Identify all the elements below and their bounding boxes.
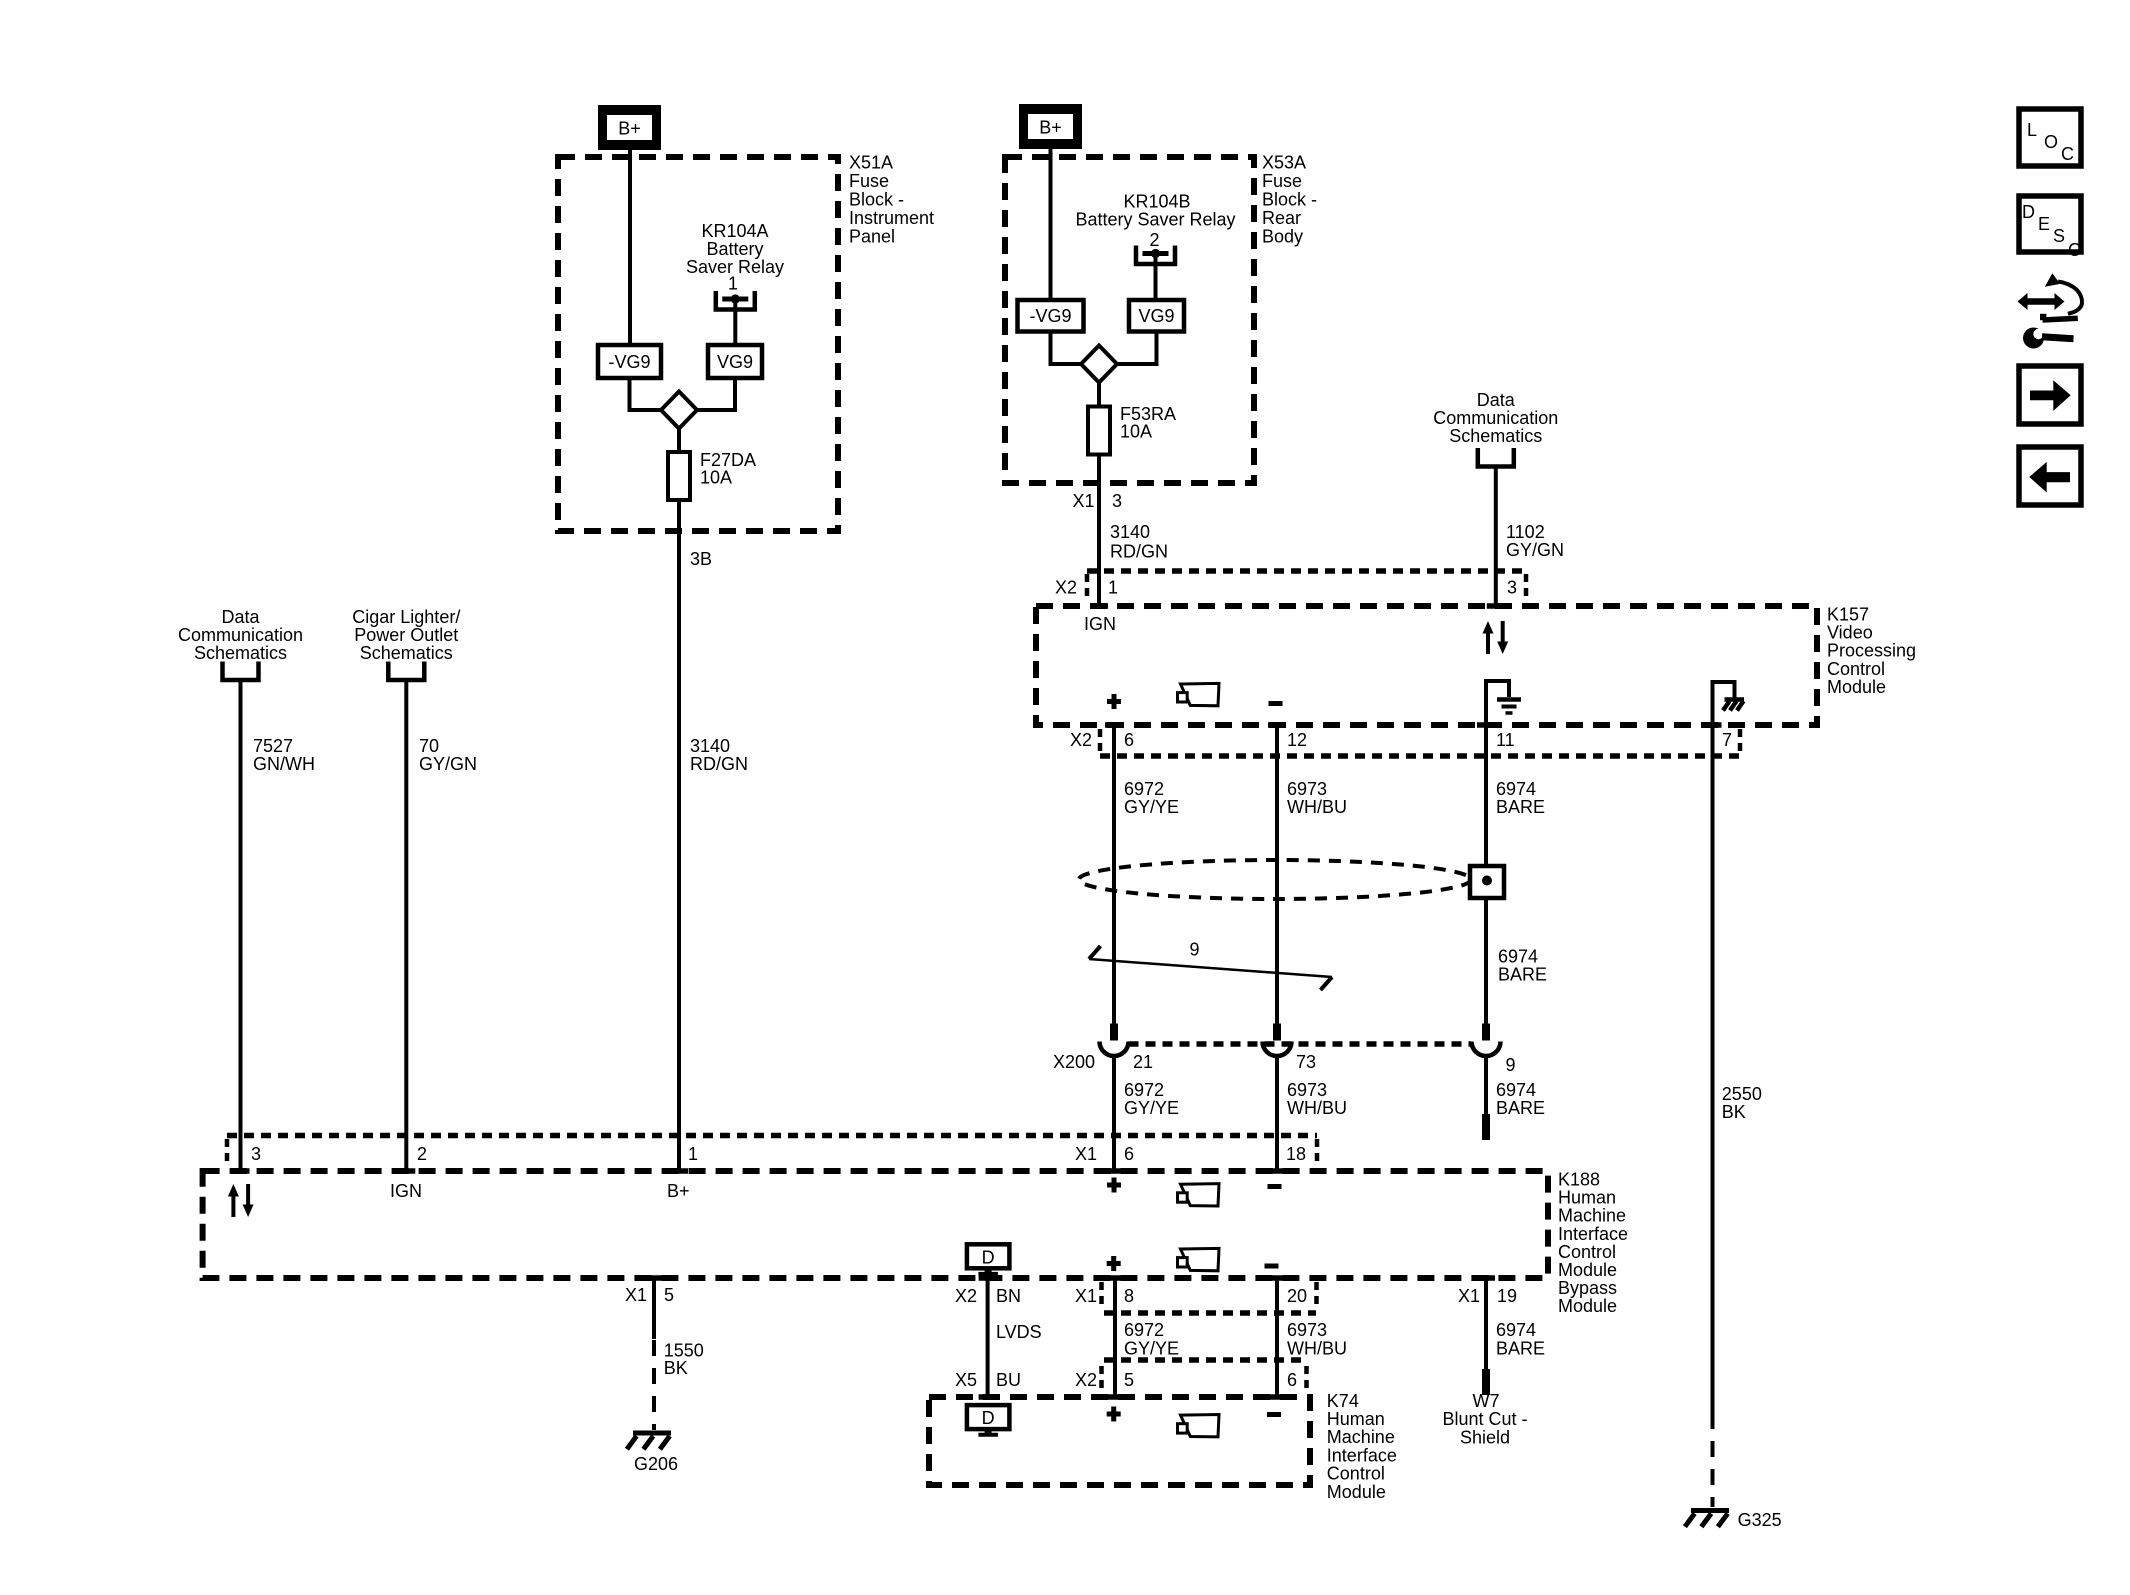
svg-text:2: 2 xyxy=(417,1144,427,1164)
svg-text:1102: 1102 xyxy=(1506,522,1545,542)
svg-text:IGN: IGN xyxy=(1084,614,1116,634)
svg-text:VG9: VG9 xyxy=(717,352,753,372)
svg-text:12: 12 xyxy=(1287,730,1307,750)
svg-text:BK: BK xyxy=(664,1358,688,1378)
svg-text:Cigar Lighter/: Cigar Lighter/ xyxy=(352,607,460,627)
svg-text:WH/BU: WH/BU xyxy=(1287,1339,1347,1359)
svg-text:K188: K188 xyxy=(1558,1170,1600,1190)
svg-text:Interface: Interface xyxy=(1327,1445,1397,1465)
svg-text:Fuse: Fuse xyxy=(849,171,889,191)
svg-text:BK: BK xyxy=(1722,1102,1746,1122)
svg-text:6: 6 xyxy=(1287,1370,1297,1390)
svg-text:RD/GN: RD/GN xyxy=(690,754,748,774)
svg-text:3: 3 xyxy=(1507,578,1517,598)
svg-text:X2: X2 xyxy=(1075,1370,1097,1390)
svg-text:X1: X1 xyxy=(1075,1286,1097,1306)
svg-text:9: 9 xyxy=(1506,1055,1516,1075)
svg-text:E: E xyxy=(2038,214,2050,234)
svg-text:Machine: Machine xyxy=(1327,1427,1395,1447)
svg-text:Video: Video xyxy=(1827,623,1873,643)
svg-text:Battery Saver Relay: Battery Saver Relay xyxy=(1075,210,1235,230)
svg-text:X2: X2 xyxy=(955,1286,977,1306)
svg-text:6: 6 xyxy=(1124,730,1134,750)
svg-text:3140: 3140 xyxy=(690,736,730,756)
svg-text:WH/BU: WH/BU xyxy=(1287,1098,1347,1118)
svg-text:Module: Module xyxy=(1827,677,1886,697)
svg-text:Control: Control xyxy=(1827,659,1885,679)
svg-text:Module: Module xyxy=(1558,1260,1617,1280)
svg-text:X1: X1 xyxy=(1458,1286,1480,1306)
svg-text:Panel: Panel xyxy=(849,227,895,247)
svg-text:X1: X1 xyxy=(625,1285,647,1305)
svg-text:X2: X2 xyxy=(1070,730,1092,750)
svg-text:Power Outlet: Power Outlet xyxy=(354,625,458,645)
svg-text:VG9: VG9 xyxy=(1138,306,1174,326)
svg-text:6972: 6972 xyxy=(1124,1080,1164,1100)
svg-text:10A: 10A xyxy=(700,468,732,488)
svg-text:S: S xyxy=(2053,226,2065,246)
svg-text:5: 5 xyxy=(1124,1370,1134,1390)
svg-text:WH/BU: WH/BU xyxy=(1287,797,1347,817)
svg-text:Data: Data xyxy=(221,607,260,627)
svg-text:Data: Data xyxy=(1477,390,1516,410)
svg-text:Fuse: Fuse xyxy=(1262,171,1302,191)
svg-text:X200: X200 xyxy=(1053,1052,1095,1072)
svg-text:K74: K74 xyxy=(1327,1391,1359,1411)
svg-text:Control: Control xyxy=(1327,1464,1385,1484)
svg-text:6973: 6973 xyxy=(1287,779,1327,799)
svg-text:Control: Control xyxy=(1558,1242,1616,1262)
svg-text:GN/WH: GN/WH xyxy=(253,754,315,774)
svg-text:GY/YE: GY/YE xyxy=(1124,1339,1179,1359)
svg-text:1: 1 xyxy=(1108,578,1118,598)
svg-text:Shield: Shield xyxy=(1460,1428,1510,1448)
svg-text:BARE: BARE xyxy=(1496,797,1545,817)
svg-text:73: 73 xyxy=(1296,1052,1316,1072)
svg-text:GY/GN: GY/GN xyxy=(419,754,477,774)
svg-text:B+: B+ xyxy=(667,1181,690,1201)
svg-text:IGN: IGN xyxy=(390,1181,422,1201)
svg-text:Module: Module xyxy=(1327,1482,1386,1502)
svg-text:BARE: BARE xyxy=(1496,1098,1545,1118)
svg-text:Rear: Rear xyxy=(1262,208,1301,228)
svg-text:Blunt Cut -: Blunt Cut - xyxy=(1442,1409,1527,1429)
svg-text:Block -: Block - xyxy=(1262,190,1317,210)
svg-text:Bypass: Bypass xyxy=(1558,1278,1617,1298)
svg-text:BARE: BARE xyxy=(1496,1339,1545,1359)
svg-text:11: 11 xyxy=(1496,730,1515,750)
svg-text:6973: 6973 xyxy=(1287,1080,1327,1100)
svg-text:LVDS: LVDS xyxy=(996,1322,1042,1342)
svg-text:KR104A: KR104A xyxy=(701,221,768,241)
svg-text:6972: 6972 xyxy=(1124,1320,1164,1340)
svg-text:6974: 6974 xyxy=(1496,779,1536,799)
svg-text:1: 1 xyxy=(728,274,738,294)
svg-text:3B: 3B xyxy=(690,549,712,569)
svg-text:Human: Human xyxy=(1558,1188,1616,1208)
svg-text:21: 21 xyxy=(1133,1052,1153,1072)
svg-text:6974: 6974 xyxy=(1498,947,1538,967)
svg-text:BU: BU xyxy=(996,1370,1021,1390)
svg-text:RD/GN: RD/GN xyxy=(1110,542,1168,562)
svg-text:GY/YE: GY/YE xyxy=(1124,1098,1179,1118)
svg-text:18: 18 xyxy=(1286,1144,1306,1164)
svg-text:8: 8 xyxy=(1124,1286,1134,1306)
svg-text:Body: Body xyxy=(1262,227,1303,247)
svg-text:-VG9: -VG9 xyxy=(608,352,650,372)
svg-text:X5: X5 xyxy=(955,1370,977,1390)
svg-text:O: O xyxy=(2044,132,2058,152)
svg-text:C: C xyxy=(2061,144,2074,164)
svg-text:X53A: X53A xyxy=(1262,153,1306,173)
svg-text:W7: W7 xyxy=(1473,1391,1500,1411)
svg-text:X1: X1 xyxy=(1073,491,1095,511)
svg-text:Machine: Machine xyxy=(1558,1206,1626,1226)
svg-text:Communication: Communication xyxy=(1433,408,1558,428)
svg-text:Interface: Interface xyxy=(1558,1224,1628,1244)
svg-text:2: 2 xyxy=(1149,230,1159,250)
svg-text:6: 6 xyxy=(1124,1144,1134,1164)
svg-text:Schematics: Schematics xyxy=(194,643,287,663)
svg-text:X2: X2 xyxy=(1055,578,1077,598)
svg-text:3140: 3140 xyxy=(1110,522,1150,542)
svg-text:Instrument: Instrument xyxy=(849,208,934,228)
svg-text:6972: 6972 xyxy=(1124,779,1164,799)
svg-text:Battery: Battery xyxy=(706,239,763,259)
svg-text:GY/YE: GY/YE xyxy=(1124,797,1179,817)
svg-text:Module: Module xyxy=(1558,1296,1617,1316)
svg-text:6974: 6974 xyxy=(1496,1080,1536,1100)
svg-text:3: 3 xyxy=(1112,491,1122,511)
svg-text:70: 70 xyxy=(419,736,439,756)
svg-text:BN: BN xyxy=(996,1286,1021,1306)
svg-text:C: C xyxy=(2068,240,2081,260)
svg-text:K157: K157 xyxy=(1827,605,1869,625)
svg-text:6973: 6973 xyxy=(1287,1320,1327,1340)
svg-text:5: 5 xyxy=(664,1285,674,1305)
svg-text:9: 9 xyxy=(1190,940,1200,960)
svg-text:GY/GN: GY/GN xyxy=(1506,540,1564,560)
svg-text:D: D xyxy=(2022,202,2035,222)
svg-text:-VG9: -VG9 xyxy=(1029,306,1071,326)
svg-text:KR104B: KR104B xyxy=(1123,192,1190,212)
svg-text:X51A: X51A xyxy=(849,153,893,173)
svg-text:Block -: Block - xyxy=(849,190,904,210)
svg-text:G325: G325 xyxy=(1738,1510,1782,1530)
svg-text:19: 19 xyxy=(1497,1286,1517,1306)
svg-text:6974: 6974 xyxy=(1496,1320,1536,1340)
svg-text:1: 1 xyxy=(688,1144,698,1164)
svg-text:L: L xyxy=(2027,120,2037,140)
svg-text:Processing: Processing xyxy=(1827,641,1916,661)
svg-text:10A: 10A xyxy=(1120,422,1152,442)
svg-text:3: 3 xyxy=(251,1144,261,1164)
svg-text:Human: Human xyxy=(1327,1409,1385,1429)
svg-text:Communication: Communication xyxy=(178,625,303,645)
svg-text:2550: 2550 xyxy=(1722,1084,1762,1104)
svg-text:7: 7 xyxy=(1722,730,1732,750)
svg-text:BARE: BARE xyxy=(1498,965,1547,985)
svg-text:X1: X1 xyxy=(1075,1144,1097,1164)
svg-text:Schematics: Schematics xyxy=(360,643,453,663)
svg-text:G206: G206 xyxy=(634,1454,678,1474)
svg-text:20: 20 xyxy=(1287,1286,1307,1306)
svg-text:Schematics: Schematics xyxy=(1449,426,1542,446)
svg-text:7527: 7527 xyxy=(253,736,293,756)
